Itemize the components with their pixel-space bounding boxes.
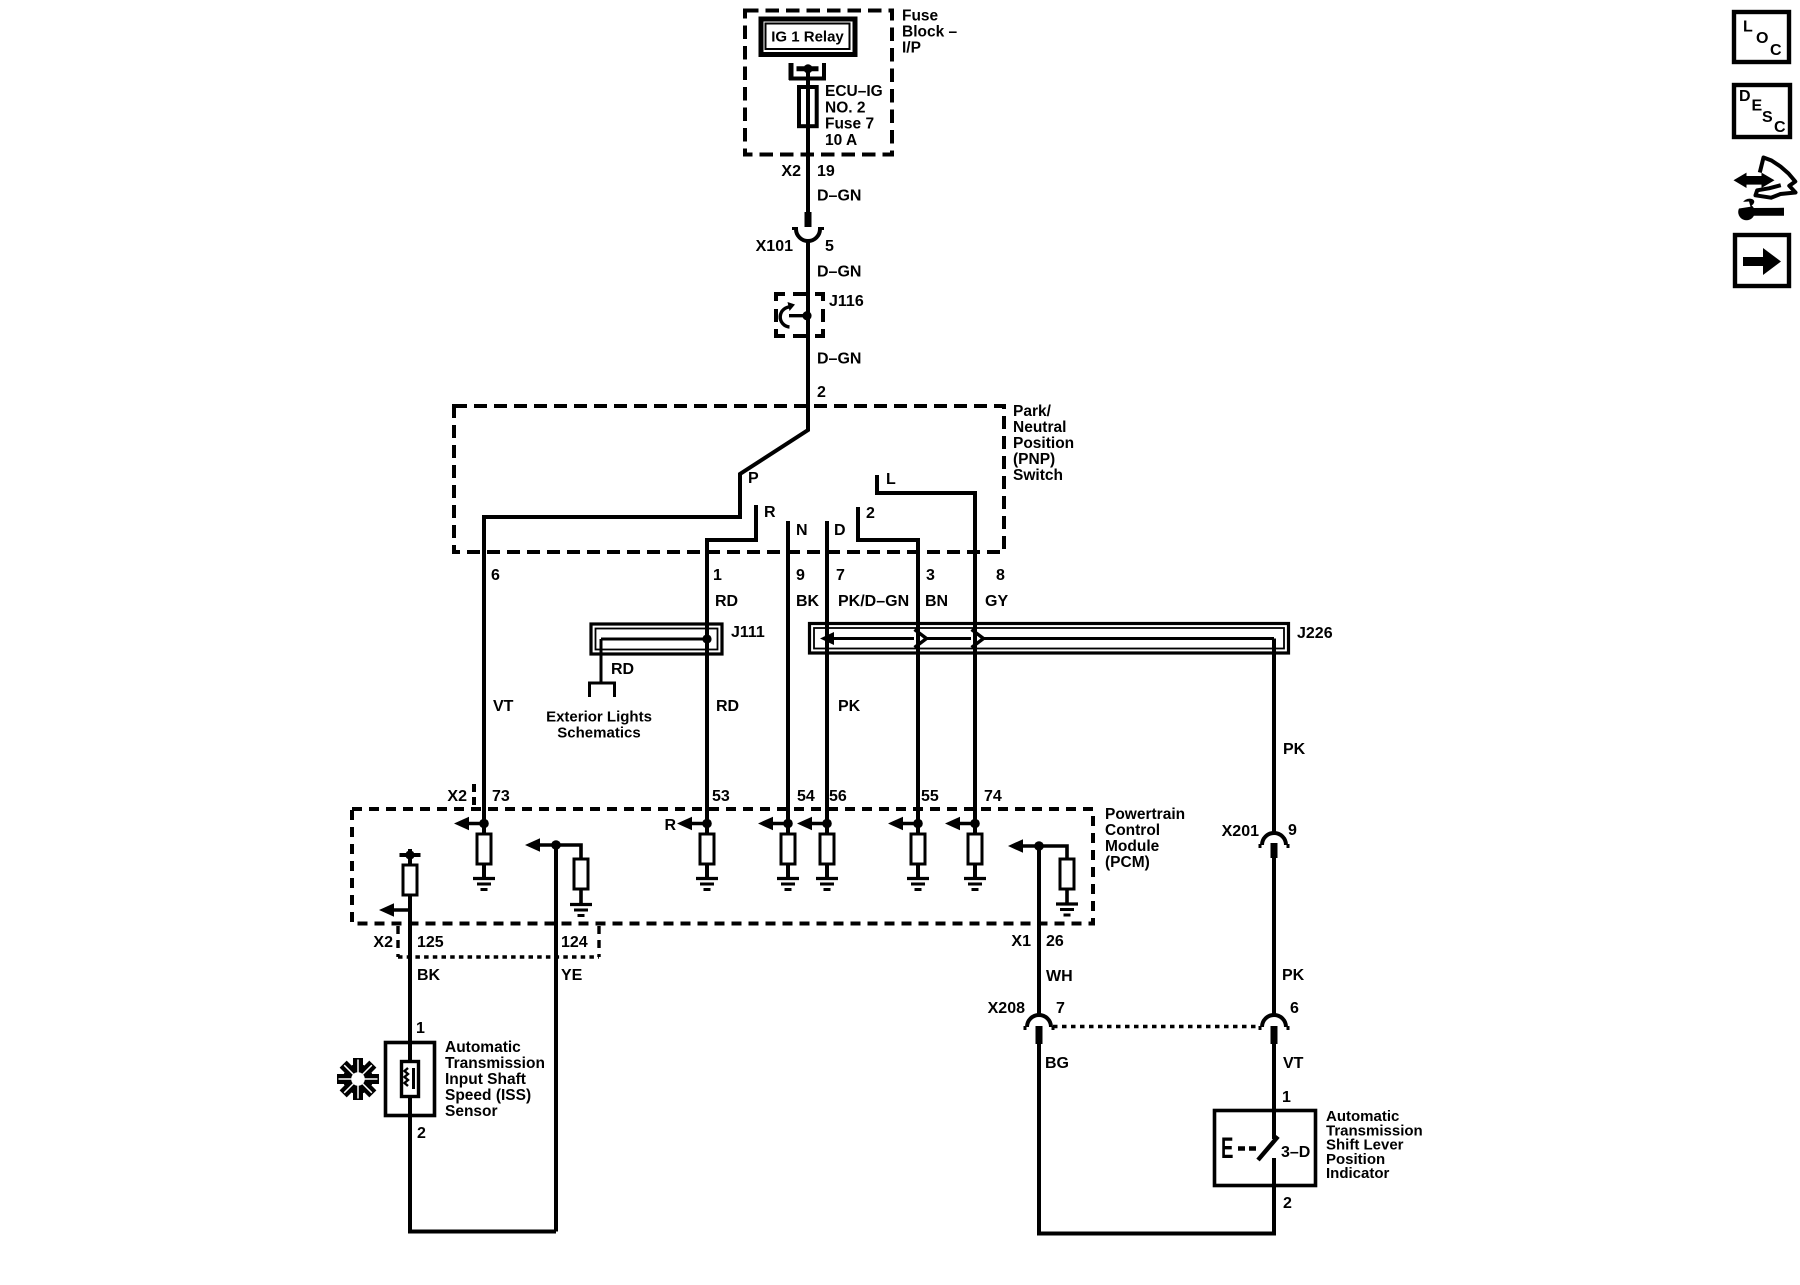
svg-text:D–GN: D–GN bbox=[817, 264, 861, 281]
PCM dashed box bbox=[352, 809, 1093, 924]
svg-text:5: 5 bbox=[825, 238, 834, 255]
svg-text:9: 9 bbox=[1288, 822, 1297, 839]
relay K: IG 1 Relay box bbox=[761, 19, 855, 55]
wire ISS loop bottom bbox=[410, 1117, 556, 1232]
svg-text:P: P bbox=[748, 470, 759, 487]
svg-text:S: S bbox=[1762, 109, 1773, 126]
jump/shortcut icon: double arrow with outline arrow and wrench bbox=[1734, 173, 1747, 188]
wire: L contact to pin 8 bbox=[877, 475, 975, 824]
ISS sensor box bbox=[386, 1043, 435, 1116]
svg-text:WH: WH bbox=[1046, 968, 1073, 985]
fuse F7: ECU-IG NO.2 Fuse 7 10A body bbox=[799, 87, 817, 126]
svg-text:(PNP): (PNP) bbox=[1013, 451, 1055, 468]
svg-text:D: D bbox=[1739, 88, 1751, 105]
svg-text:6: 6 bbox=[491, 567, 500, 584]
svg-text:PK/D–GN: PK/D–GN bbox=[838, 593, 909, 610]
PCM pin input: dot, arrow, resistor R, ground at x=918 bbox=[913, 819, 923, 829]
connector strip X2 dashed outline bbox=[396, 926, 399, 957]
connector X101 pin 5 bbox=[805, 212, 812, 227]
splice J111 bar bbox=[591, 624, 722, 654]
DESC icon box bbox=[1734, 85, 1790, 137]
svg-text:6: 6 bbox=[1290, 1000, 1299, 1017]
svg-text:IG 1 Relay: IG 1 Relay bbox=[771, 29, 844, 46]
X208 dotted connector link bbox=[1053, 1025, 1260, 1028]
svg-text:(PCM): (PCM) bbox=[1105, 854, 1150, 871]
svg-text:NO. 2: NO. 2 bbox=[825, 99, 865, 116]
svg-text:R: R bbox=[664, 817, 676, 834]
svg-text:Switch: Switch bbox=[1013, 467, 1063, 484]
fuse clip bracket bbox=[789, 63, 794, 80]
svg-text:X208: X208 bbox=[988, 1000, 1025, 1017]
svg-text:E: E bbox=[1221, 1132, 1233, 1166]
wire YE from ISS to PCM pin 124 bbox=[554, 845, 558, 1232]
splice J116 hook symbol bbox=[789, 314, 806, 317]
svg-text:Block –: Block – bbox=[902, 24, 958, 41]
svg-text:26: 26 bbox=[1046, 933, 1064, 950]
svg-text:Automatic: Automatic bbox=[445, 1039, 521, 1056]
wire from relay through fuse bbox=[806, 66, 810, 212]
PCM pin input: dot, arrow, resistor R, ground at x=788 bbox=[783, 819, 793, 829]
wire WH bbox=[1037, 846, 1041, 1014]
svg-text:BK: BK bbox=[796, 593, 820, 610]
J226 splice arrow line bbox=[820, 632, 834, 645]
svg-text:Powertrain: Powertrain bbox=[1105, 806, 1185, 823]
wire BG bbox=[1037, 1044, 1041, 1234]
svg-text:Exterior Lights: Exterior Lights bbox=[546, 709, 652, 726]
svg-text:Transmission: Transmission bbox=[445, 1055, 545, 1072]
svg-text:1: 1 bbox=[1282, 1089, 1291, 1106]
splice J226 bar bbox=[810, 624, 1289, 654]
svg-text:Position: Position bbox=[1013, 435, 1074, 452]
svg-text:54: 54 bbox=[797, 788, 815, 805]
svg-text:BG: BG bbox=[1045, 1055, 1069, 1072]
fuse block I/P dashed box bbox=[745, 11, 892, 155]
svg-text:74: 74 bbox=[984, 788, 1002, 805]
svg-text:L: L bbox=[886, 471, 896, 488]
svg-text:BK: BK bbox=[417, 967, 441, 984]
svg-text:Neutral: Neutral bbox=[1013, 419, 1066, 436]
PCM pin input: dot, arrow, resistor R, ground at x=707 bbox=[702, 819, 712, 829]
wire PK from J226 to X201 bbox=[1272, 639, 1276, 834]
indicator E - - / 3-D switch bbox=[1221, 1132, 1233, 1166]
svg-text:Fuse 7: Fuse 7 bbox=[825, 116, 874, 133]
svg-text:PK: PK bbox=[838, 698, 861, 715]
wire: 2 contact to pin 3 bbox=[858, 507, 918, 824]
wire BK through connector X2 pin 125 bbox=[408, 910, 412, 1041]
svg-text:PK: PK bbox=[1283, 741, 1306, 758]
svg-text:10 A: 10 A bbox=[825, 132, 857, 149]
svg-text:1: 1 bbox=[713, 567, 722, 584]
svg-text:125: 125 bbox=[417, 934, 444, 951]
svg-text:Indicator: Indicator bbox=[1326, 1165, 1390, 1182]
svg-text:O: O bbox=[1756, 30, 1768, 47]
ISS sensing element bbox=[402, 1062, 419, 1097]
svg-text:Control: Control bbox=[1105, 822, 1160, 839]
svg-text:8: 8 bbox=[996, 567, 1005, 584]
connector X208 pin 7 bbox=[1027, 1015, 1051, 1027]
svg-text:X2: X2 bbox=[447, 788, 467, 805]
svg-text:Module: Module bbox=[1105, 838, 1160, 855]
svg-text:D–GN: D–GN bbox=[817, 188, 861, 205]
wire VT bbox=[1272, 1044, 1276, 1109]
wire: D contact to pin 7 bbox=[825, 521, 829, 824]
svg-text:RD: RD bbox=[716, 698, 739, 715]
PNP switch dashed box bbox=[454, 406, 1004, 552]
PCM pin input: dot, arrow, resistor R, ground at x=975 bbox=[970, 819, 980, 829]
svg-text:D–GN: D–GN bbox=[817, 351, 861, 368]
svg-text:X2: X2 bbox=[373, 934, 393, 951]
svg-text:I/P: I/P bbox=[902, 40, 921, 57]
svg-text:19: 19 bbox=[817, 163, 835, 180]
svg-text:2: 2 bbox=[1283, 1195, 1292, 1212]
wrench bbox=[1738, 204, 1755, 221]
svg-text:N: N bbox=[796, 522, 808, 539]
svg-text:1: 1 bbox=[416, 1020, 425, 1037]
indicator box bbox=[1215, 1111, 1316, 1186]
svg-text:Sensor: Sensor bbox=[445, 1103, 498, 1120]
J111 branch to exterior lights bbox=[600, 639, 603, 683]
svg-text:Park/: Park/ bbox=[1013, 403, 1052, 420]
svg-text:2: 2 bbox=[417, 1125, 426, 1142]
svg-text:D: D bbox=[834, 522, 846, 539]
wire PK to X208 bbox=[1272, 857, 1276, 1014]
svg-text:X201: X201 bbox=[1222, 823, 1259, 840]
svg-text:124: 124 bbox=[561, 934, 588, 951]
connector X201 pin 9 bbox=[1262, 833, 1286, 845]
svg-text:VT: VT bbox=[1283, 1055, 1304, 1072]
svg-text:GY: GY bbox=[985, 593, 1008, 610]
svg-text:J226: J226 bbox=[1297, 625, 1333, 642]
svg-text:J111: J111 bbox=[731, 624, 765, 641]
svg-text:56: 56 bbox=[829, 788, 847, 805]
gear icon bbox=[343, 1064, 373, 1094]
svg-text:X1: X1 bbox=[1011, 933, 1031, 950]
PCM pin 125 output: T-bar, resistor, arrow bbox=[408, 849, 412, 910]
svg-text:RD: RD bbox=[715, 593, 738, 610]
wire: N contact to pin 9 bbox=[786, 521, 790, 824]
svg-text:L: L bbox=[1743, 19, 1753, 36]
svg-text:R: R bbox=[764, 504, 776, 521]
svg-text:3–D: 3–D bbox=[1281, 1144, 1310, 1161]
svg-text:7: 7 bbox=[1056, 1000, 1065, 1017]
splice J116 dashed box bbox=[774, 294, 825, 336]
connector X208 pin 6 bbox=[1262, 1015, 1286, 1027]
svg-text:73: 73 bbox=[492, 788, 510, 805]
svg-text:VT: VT bbox=[493, 698, 514, 715]
svg-text:2: 2 bbox=[866, 505, 875, 522]
svg-text:55: 55 bbox=[921, 788, 939, 805]
svg-text:RD: RD bbox=[611, 661, 634, 678]
svg-text:3: 3 bbox=[926, 567, 935, 584]
PCM pin X1-26 input: dot, arrow, resistor, ground bbox=[1034, 841, 1044, 851]
svg-text:BN: BN bbox=[925, 593, 948, 610]
svg-text:Fuse: Fuse bbox=[902, 8, 939, 25]
forward arrow icon box bbox=[1735, 235, 1789, 286]
svg-text:ECU–IG: ECU–IG bbox=[825, 83, 883, 100]
PCM pin input: dot, arrow, resistor R, ground at x=827 bbox=[822, 819, 832, 829]
LOC icon box bbox=[1734, 12, 1789, 62]
svg-text:9: 9 bbox=[796, 567, 805, 584]
svg-text:Input Shaft: Input Shaft bbox=[445, 1071, 526, 1088]
svg-text:PK: PK bbox=[1282, 967, 1305, 984]
svg-text:C: C bbox=[1770, 42, 1782, 59]
PCM pin 124 input: dot, arrow, resistor, ground bbox=[551, 840, 561, 850]
svg-text:Speed (ISS): Speed (ISS) bbox=[445, 1087, 531, 1104]
svg-text:Schematics: Schematics bbox=[557, 725, 640, 742]
wire: PNP common P contact bbox=[484, 240, 808, 824]
svg-text:E: E bbox=[1752, 98, 1763, 115]
svg-text:X101: X101 bbox=[756, 238, 793, 255]
svg-text:YE: YE bbox=[561, 967, 583, 984]
svg-text:X2: X2 bbox=[781, 163, 801, 180]
svg-text:53: 53 bbox=[712, 788, 730, 805]
wire: R contact to pin 1 bbox=[707, 505, 756, 824]
svg-text:7: 7 bbox=[836, 567, 845, 584]
PCM pin input: dot, arrow, resistor R, ground at x=484 bbox=[479, 819, 489, 829]
svg-text:2: 2 bbox=[817, 384, 826, 401]
svg-text:J116: J116 bbox=[829, 293, 864, 310]
svg-text:C: C bbox=[1774, 119, 1786, 136]
wire indicator loop bottom bbox=[1039, 1187, 1274, 1234]
fuse contact T-bar bbox=[797, 66, 819, 71]
